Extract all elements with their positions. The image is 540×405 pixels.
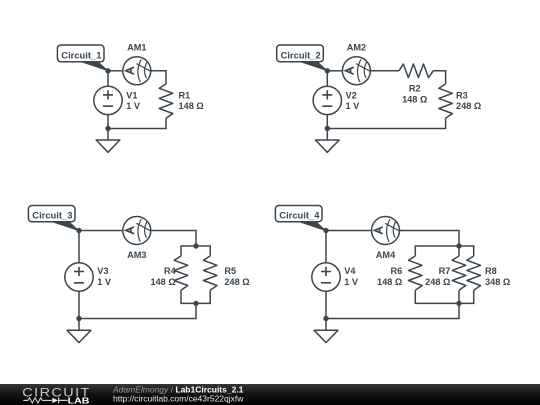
ground C2	[315, 140, 339, 152]
voltage source V3	[65, 263, 112, 291]
resistor R1	[159, 84, 204, 118]
svg-text:1 V: 1 V	[344, 277, 359, 287]
svg-text:Circuit_2: Circuit_2	[281, 49, 321, 60]
voltage source V1	[94, 86, 141, 114]
svg-text:348 Ω: 348 Ω	[485, 277, 510, 287]
node junction bottom C1	[105, 126, 110, 131]
wire to ground C4	[325, 319, 327, 331]
resistor R7	[425, 256, 466, 290]
ammeter AM3	[123, 217, 151, 261]
wire node to V1	[107, 71, 109, 87]
svg-text:1 V: 1 V	[346, 101, 361, 111]
svg-text:http://circuitlab.com/ce43r522: http://circuitlab.com/ce43r522qjxfw	[113, 393, 244, 403]
svg-text:148 Ω: 148 Ω	[179, 101, 204, 111]
label Circuit_2	[277, 45, 328, 71]
resistor R8	[467, 256, 510, 290]
node junction bottom C4	[323, 316, 328, 321]
wire parallel top bar C4	[415, 246, 473, 256]
wire node to V3	[78, 231, 80, 263]
svg-text:Circuit_4: Circuit_4	[279, 209, 320, 220]
wire V4 to bottom node C4	[325, 291, 327, 318]
wire parallel bottom to V3 bottom	[79, 303, 196, 318]
node junction bottom C2	[325, 126, 330, 131]
node junction parallel bottom C3	[193, 301, 198, 306]
ammeter AM2	[342, 42, 370, 85]
voltage source V4	[312, 263, 359, 291]
wire V1 to bottom node C1	[107, 115, 109, 129]
wire V2 to bottom node C2	[326, 115, 328, 129]
wire to ground C1	[107, 129, 109, 141]
svg-text:Circuit_3: Circuit_3	[32, 209, 72, 220]
svg-text:V3: V3	[97, 266, 108, 276]
wire R3 to bottom node C2	[327, 118, 445, 128]
node junction parallel top C3	[193, 243, 198, 248]
svg-text:248 Ω: 248 Ω	[456, 101, 481, 111]
label Circuit_3	[28, 206, 79, 231]
svg-text:1 V: 1 V	[97, 277, 112, 287]
wire AM1 to R1	[151, 71, 166, 84]
svg-text:AM4: AM4	[376, 250, 396, 260]
svg-text:248 Ω: 248 Ω	[224, 277, 249, 287]
wire node to AM2	[327, 70, 342, 72]
wire parallel bottom to V4 bottom	[326, 303, 459, 318]
wire parallel bottom bar C3	[181, 290, 210, 303]
svg-text:R3: R3	[456, 90, 468, 100]
svg-text:AM2: AM2	[347, 42, 366, 52]
ground C3	[67, 330, 91, 342]
resistor R6	[377, 256, 422, 290]
svg-text:248 Ω: 248 Ω	[425, 277, 450, 287]
wire R7 stubs	[458, 246, 460, 303]
svg-text:AM3: AM3	[127, 250, 146, 260]
svg-text:R6: R6	[391, 266, 403, 276]
svg-text:148 Ω: 148 Ω	[402, 95, 427, 105]
wire AM3 to parallel top node C3	[151, 231, 196, 247]
svg-text:Circuit_1: Circuit_1	[61, 49, 101, 60]
ammeter AM1	[123, 42, 151, 85]
node junction top C1	[105, 68, 110, 73]
label Circuit_1	[57, 45, 108, 71]
ground C4	[314, 330, 338, 342]
svg-text:R8: R8	[485, 266, 497, 276]
node junction top C4	[323, 228, 328, 233]
svg-text:AM1: AM1	[127, 42, 146, 52]
wire to ground C3	[78, 319, 80, 331]
wire V3 to bottom node C3	[78, 291, 80, 318]
wire parallel bottom bar C4	[415, 290, 473, 303]
ground C1	[96, 140, 120, 152]
node junction top C2	[325, 68, 330, 73]
resistor R5	[203, 256, 249, 290]
svg-text:LAB: LAB	[68, 397, 90, 405]
wire AM4 to parallel top node C4	[400, 231, 460, 247]
label Circuit_4	[275, 206, 326, 231]
wire to ground C2	[326, 129, 328, 141]
node junction bottom C3	[76, 316, 81, 321]
node junction parallel top C4	[456, 243, 461, 248]
wire node to AM3	[79, 230, 123, 232]
ammeter AM4	[372, 217, 400, 261]
svg-text:R1: R1	[179, 90, 191, 100]
svg-text:148 Ω: 148 Ω	[150, 277, 175, 287]
logo resistor-diode symbol	[23, 398, 51, 403]
node junction parallel bottom C4	[456, 301, 461, 306]
wire node to AM4	[326, 230, 372, 232]
svg-text:1 V: 1 V	[126, 101, 141, 111]
wire node to AM1	[108, 70, 123, 72]
svg-text:V1: V1	[126, 90, 137, 100]
node junction top C3	[76, 228, 81, 233]
svg-text:V4: V4	[344, 266, 356, 276]
wire node to V4	[325, 231, 327, 263]
wire AM2 to R2	[370, 70, 399, 72]
svg-text:V2: V2	[346, 90, 357, 100]
resistor R2	[399, 64, 433, 105]
wire parallel top bar C3	[181, 246, 210, 256]
voltage source V2	[313, 86, 360, 114]
svg-text:R7: R7	[439, 266, 451, 276]
wire R2 to R3	[433, 71, 446, 84]
resistor R3	[439, 84, 481, 118]
wire R1 to bottom node C1	[108, 118, 166, 128]
wire node to V2	[326, 71, 328, 87]
svg-text:148 Ω: 148 Ω	[377, 277, 402, 287]
svg-text:R4: R4	[164, 266, 177, 276]
svg-text:R5: R5	[224, 266, 236, 276]
svg-text:R2: R2	[409, 84, 421, 94]
resistor R4	[150, 256, 187, 290]
